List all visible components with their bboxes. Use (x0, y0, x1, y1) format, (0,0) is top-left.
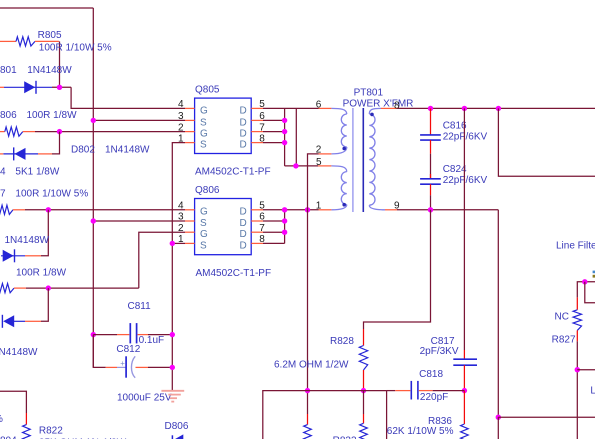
wire R805 to D801 junction (59, 41, 61, 87)
wire to Q806 pin3 (93, 220, 185, 222)
svg-text:1N4148W: 1N4148W (105, 145, 150, 156)
svg-text:2: 2 (178, 122, 184, 133)
svg-text:2: 2 (316, 145, 322, 156)
svg-text:G: G (200, 207, 208, 218)
svg-text:804: 804 (0, 436, 17, 439)
Q805 right pin stub 5 (251, 107, 263, 109)
svg-text:220pF: 220pF (420, 392, 448, 403)
junction R808/D807 (46, 285, 51, 290)
wire R827 top corner (577, 282, 595, 298)
PT801 pin 8 stub (381, 107, 397, 109)
PT801 phase dot secondary (370, 113, 374, 117)
svg-text:D: D (240, 229, 247, 240)
svg-text:5%: 5% (0, 414, 3, 425)
junction R806/D802 (57, 129, 62, 134)
junction drain bus pin7 (282, 129, 287, 134)
svg-text:C812: C812 (116, 344, 140, 355)
wire right stub (577, 369, 595, 371)
svg-text:S: S (200, 218, 207, 229)
svg-text:G: G (200, 129, 208, 140)
svg-text:100R 1/8W: 100R 1/8W (16, 268, 67, 279)
Q806 right pin stub 5 (251, 209, 263, 211)
svg-text:1N4148W: 1N4148W (0, 347, 38, 358)
svg-text:C811: C811 (128, 301, 152, 312)
junction C817 branch (462, 106, 467, 111)
svg-text:R828: R828 (330, 336, 354, 347)
transistor Q805 (195, 98, 252, 153)
svg-text:8: 8 (394, 101, 400, 112)
wire XFMR pin2 corner (308, 154, 319, 210)
junction bottom right rail (496, 415, 501, 420)
transistor Q806 (195, 199, 252, 255)
wire to Q805 pin4 (71, 87, 185, 108)
resistor R833 (clipped) (363, 391, 365, 414)
wire C824 to pin9 rail (430, 195, 432, 210)
svg-text:D: D (240, 105, 247, 116)
svg-text:G: G (200, 229, 208, 240)
wire down to R830 (307, 210, 309, 414)
svg-text:NC: NC (555, 312, 569, 323)
wire vertical bus x=93 (92, 8, 94, 367)
junction gnd bus Q806 pin1 (170, 241, 175, 246)
wire bottom net (263, 391, 387, 439)
Q806 right pin stub 7 (251, 231, 263, 233)
wire Q806 drain bus (284, 210, 286, 244)
Q805 right pin stub 6 (251, 119, 263, 121)
wire right vertical x=498 (497, 210, 499, 417)
junction R828 bottom (361, 388, 366, 393)
svg-text:22pF/6KV: 22pF/6KV (443, 175, 488, 186)
wire Q806 pin1 to gnd bus (172, 242, 185, 244)
svg-text:D: D (240, 240, 247, 251)
svg-text:6.2M OHM 1/2W: 6.2M OHM 1/2W (274, 360, 349, 371)
Q806 left pin stub 3 (185, 220, 195, 222)
svg-text:5: 5 (316, 157, 322, 168)
svg-text:4: 4 (0, 166, 6, 177)
ground (161, 390, 184, 392)
svg-text:22pF/6KV: 22pF/6KV (443, 131, 488, 142)
wire junction down to D805 (41, 210, 48, 256)
svg-text:D802: D802 (71, 145, 95, 156)
svg-text:1N4148W: 1N4148W (27, 65, 72, 76)
PT801 pin 9 stub (385, 209, 397, 211)
junction drain bus pin6 (282, 218, 287, 223)
wire bus to XFMR pin5 (285, 165, 318, 167)
wire Q805 drain bus (284, 108, 286, 165)
wire Q806 drain to bus (263, 242, 285, 244)
wire R806 to Q805 pin2 (60, 131, 186, 133)
svg-text:D: D (240, 129, 247, 140)
wire pin5 drop (295, 108, 297, 165)
svg-text:D: D (240, 140, 247, 151)
wire D801 to corner (52, 86, 71, 88)
junction XFMR pin2 net (305, 207, 310, 212)
svg-text:S: S (200, 117, 207, 128)
svg-text:801: 801 (0, 65, 17, 76)
svg-text:AM4502C-T1-PF: AM4502C-T1-PF (196, 268, 272, 279)
wire R827 down (576, 341, 578, 439)
junction line filter branch (496, 106, 501, 111)
wire x=498 to bottom (497, 417, 499, 439)
PT801 secondary winding (369, 108, 381, 114)
svg-text:R805: R805 (38, 30, 62, 41)
svg-text:4: 4 (178, 99, 184, 110)
svg-text:D: D (240, 117, 247, 128)
junction drain bus pin7 (282, 230, 287, 235)
svg-text:62K 1/10W 5%: 62K 1/10W 5% (387, 426, 454, 437)
junction line filter (582, 279, 587, 284)
svg-text:AM4502C-T1-PF: AM4502C-T1-PF (195, 166, 271, 177)
wire secondary top rail (397, 107, 595, 109)
wire bottom right rail (498, 416, 595, 418)
capacitor C818 (387, 390, 396, 392)
resistor R806 (0, 131, 5, 133)
Q805 right pin stub 7 (251, 131, 263, 133)
svg-text:S: S (200, 240, 207, 251)
svg-text:D: D (240, 207, 247, 218)
svg-text:Q806: Q806 (195, 185, 220, 196)
svg-text:1N4148W: 1N4148W (5, 235, 50, 246)
svg-text:100R 1/10W 5%: 100R 1/10W 5% (15, 188, 88, 199)
wire Q805 drain to bus (263, 131, 285, 133)
wire Q806 drain to bus (263, 231, 285, 233)
Q805 left pin stub 4 (185, 107, 195, 109)
Q805 right pin stub 8 (251, 142, 263, 144)
PT801 primary winding top (319, 107, 332, 109)
svg-text:1: 1 (316, 201, 322, 212)
svg-text:5K1 1/8W: 5K1 1/8W (15, 166, 59, 177)
resistor R827 (576, 297, 578, 309)
svg-text:100R 1/10W 5%: 100R 1/10W 5% (39, 43, 112, 54)
wire line filter jog (585, 282, 595, 303)
junction bus/Q806 pin3 (91, 218, 96, 223)
junction gnd bus/C812 (170, 365, 175, 370)
lead R830 top (307, 414, 309, 425)
diode D801 (0, 86, 4, 88)
svg-text:Q805: Q805 (195, 84, 220, 95)
wire line-filter branch (498, 108, 595, 176)
svg-text:3: 3 (178, 111, 184, 122)
junction drain bus pin6 (282, 118, 287, 123)
wire junction down to D802 (52, 132, 60, 154)
wire junction down to D807 (41, 288, 48, 321)
wire pin9 rail (397, 209, 498, 211)
junction R807/D805 (46, 207, 51, 212)
wire up to Q806 pin2 (139, 232, 185, 288)
svg-text:D806: D806 (165, 421, 189, 432)
Q806 left pin stub 4 (185, 209, 195, 211)
svg-text:100R 1/8W: 100R 1/8W (27, 110, 78, 121)
PT801 phase dot primary bottom (342, 203, 346, 207)
svg-text:Line Filter: Line Filter (556, 240, 595, 251)
resistor R836 (463, 391, 465, 424)
capacitor C824 (430, 154, 432, 179)
junction drain/XFMR pin5 (293, 163, 298, 168)
svg-text:806: 806 (0, 110, 17, 121)
junction D801/R805 (57, 85, 62, 90)
junction bus/pin3 (91, 118, 96, 123)
Q805 left pin stub 2 (185, 131, 195, 133)
svg-text:S: S (200, 140, 207, 151)
svg-text:R822: R822 (39, 426, 63, 437)
junction drain bus top (282, 207, 287, 212)
wire R808 right (26, 287, 139, 289)
wire Q806 drain to bus (263, 220, 285, 222)
svg-text:7: 7 (0, 188, 6, 199)
wire Q805 pin1 down gnd bus x=172 (172, 143, 185, 392)
svg-text:PT801: PT801 (354, 87, 384, 98)
wire to Q805 pin3 (93, 119, 185, 121)
resistor R828 (363, 329, 365, 346)
svg-text:R827: R827 (552, 335, 576, 346)
svg-text:4: 4 (178, 201, 184, 212)
junction R827 net (575, 367, 580, 372)
wire drop x=386.6 (386, 391, 388, 439)
junction pin9/C824/R828 (428, 207, 433, 212)
wire Q805 pin5 to XFMR pin6 (263, 107, 319, 109)
wire C817 column (463, 108, 465, 350)
wire top-left horizontal (0, 7, 93, 9)
Q805 left pin stub 3 (185, 119, 195, 121)
Q806 right pin stub 8 (251, 242, 263, 244)
Q806 left pin stub 1 (185, 242, 195, 244)
junction drain bus pin8 (282, 140, 287, 145)
junction C816 top (428, 106, 433, 111)
wire Q805 drain to bus (263, 142, 285, 144)
svg-text:0.1uF: 0.1uF (139, 335, 165, 346)
wire R807 to Q806 pin4 (25, 209, 185, 211)
junction R830 net (305, 388, 310, 393)
PT801 phase dot primary top (342, 147, 346, 151)
clipped pin marks (593, 271, 595, 274)
wire C824 column down to R828 (364, 210, 431, 329)
capacitor C817 (463, 350, 465, 359)
junction gnd bus/C811 (170, 332, 175, 337)
Q806 right pin stub 6 (251, 220, 263, 222)
svg-text:2pF/3KV: 2pF/3KV (420, 346, 459, 357)
wire Q805 drain to bus (263, 119, 285, 121)
wire to R822 (0, 391, 26, 413)
svg-text:1000uF 25V: 1000uF 25V (117, 392, 172, 403)
PT801 core (352, 108, 354, 212)
junction bus/C811 (91, 332, 96, 337)
resistor R805 (0, 40, 16, 42)
wire Q806 pin5 to XFMR pin1 (263, 209, 319, 211)
svg-text:C824: C824 (443, 164, 467, 175)
svg-text:C818: C818 (419, 369, 443, 380)
svg-text:3: 3 (178, 212, 184, 223)
svg-text:D: D (240, 218, 247, 229)
svg-text:L80: L80 (590, 386, 595, 397)
PT801 primary winding bottom (318, 165, 331, 167)
Q806 left pin stub 2 (185, 231, 195, 233)
Q805 left pin stub 1 (185, 142, 195, 144)
svg-text:6: 6 (316, 100, 322, 111)
svg-text:2: 2 (178, 223, 184, 234)
capacitor C816 (430, 108, 432, 134)
resistor R830 (clipped) (304, 425, 312, 439)
wire bus down to C812 (93, 335, 105, 368)
junction C817/C818/R836 (462, 388, 467, 393)
svg-text:+: + (120, 359, 125, 368)
svg-text:C816: C816 (443, 121, 467, 132)
svg-text:G: G (200, 105, 208, 116)
